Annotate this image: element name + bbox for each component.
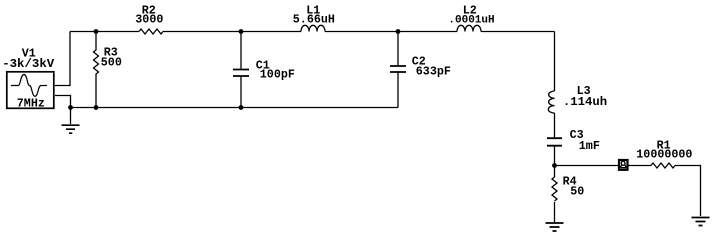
resistor R2 bbox=[139, 29, 163, 34]
capacitor C1 plates bbox=[233, 70, 249, 77]
node dot R3 top bbox=[94, 29, 99, 34]
wire node to ammeter box bbox=[555, 165, 619, 167]
node dot C2 top bbox=[396, 29, 401, 34]
node dot V1 ground bbox=[68, 105, 73, 110]
resistor R1 bbox=[651, 163, 675, 168]
wire ammeter box to R1 bbox=[629, 165, 652, 167]
resistor R3 bbox=[94, 32, 99, 108]
node dot C1 bottom bbox=[239, 105, 244, 110]
source V1 box bbox=[7, 72, 54, 109]
ammeter glyph bbox=[620, 161, 626, 167]
ground under R4 bbox=[546, 223, 564, 231]
wire left rail down to V1 plus terminal bbox=[55, 32, 70, 86]
wire R1 to right ground rail bbox=[675, 166, 701, 217]
svg-text:3000: 3000 bbox=[135, 13, 163, 27]
capacitor C2 plates bbox=[390, 66, 406, 72]
node dot C1 top bbox=[239, 29, 244, 34]
source V1 sine wave bbox=[11, 75, 47, 97]
ground under V1 bbox=[62, 125, 80, 133]
wire ground stem under V1 bbox=[70, 108, 72, 125]
wire right rail down to L3 bbox=[554, 32, 556, 92]
node dot C3 R4 junction bbox=[552, 163, 557, 168]
wire R4 to ground bbox=[554, 202, 556, 222]
wire top rail left segment bbox=[70, 31, 139, 33]
resistor R4 bbox=[552, 177, 557, 201]
wire top rail R2 to L1 bbox=[163, 31, 301, 33]
inductor L3 bbox=[548, 91, 554, 113]
capacitor C1 bbox=[240, 32, 242, 108]
wire C3 to node bbox=[554, 147, 556, 166]
wire bottom rail bbox=[71, 107, 399, 109]
svg-text:50: 50 bbox=[570, 184, 584, 198]
inductor L1 bbox=[301, 25, 325, 31]
svg-text:7MHz: 7MHz bbox=[17, 97, 45, 111]
svg-text:500: 500 bbox=[101, 56, 122, 70]
svg-text:1mF: 1mF bbox=[579, 139, 600, 153]
ammeter box M bbox=[619, 160, 628, 170]
wire node to R4 bbox=[554, 166, 556, 178]
capacitor C3 plates bbox=[547, 138, 562, 146]
svg-text:.0001uH: .0001uH bbox=[448, 15, 494, 27]
wire top rail L2 to right corner bbox=[481, 31, 555, 33]
svg-text:100pF: 100pF bbox=[260, 67, 295, 81]
wire top rail L1 to L2 bbox=[325, 31, 457, 33]
svg-text:5.66uH: 5.66uH bbox=[293, 13, 335, 27]
svg-text:-3k/3kV: -3k/3kV bbox=[2, 57, 55, 71]
svg-text:.114uh: .114uh bbox=[563, 95, 607, 109]
wire L3 to C3 bbox=[554, 113, 556, 137]
wire V1 minus terminal to bottom rail bbox=[55, 96, 71, 108]
capacitor C2 bbox=[397, 32, 399, 108]
node dot R3 bottom bbox=[94, 105, 99, 110]
svg-text:633pF: 633pF bbox=[416, 64, 451, 78]
svg-text:10000000: 10000000 bbox=[636, 148, 692, 162]
inductor L2 bbox=[457, 25, 481, 31]
ground right under R1 bbox=[692, 218, 710, 226]
